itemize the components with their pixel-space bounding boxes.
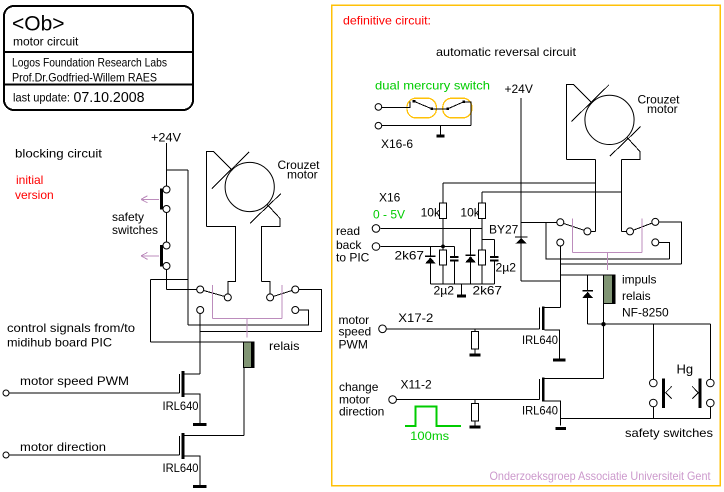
- svg-text:0 - 5V: 0 - 5V: [373, 208, 405, 222]
- svg-text:100ms: 100ms: [410, 429, 449, 443]
- svg-text:impuls: impuls: [622, 273, 657, 287]
- svg-text:IRL640: IRL640: [522, 333, 558, 347]
- svg-text:IRL640: IRL640: [163, 461, 199, 475]
- svg-text:last update:: last update:: [13, 91, 70, 105]
- svg-text:X17-2: X17-2: [398, 311, 433, 325]
- svg-text:Logos Foundation Research Labs: Logos Foundation Research Labs: [12, 56, 167, 70]
- svg-text:X16: X16: [379, 191, 401, 205]
- svg-text:safety: safety: [112, 210, 144, 224]
- svg-text:Hg: Hg: [677, 362, 694, 377]
- svg-text:version: version: [15, 188, 54, 202]
- svg-text:dual mercury switch: dual mercury switch: [375, 79, 490, 93]
- svg-text:motor speed PWM: motor speed PWM: [20, 374, 129, 388]
- svg-text:10k: 10k: [460, 206, 480, 220]
- svg-text:motor: motor: [647, 102, 678, 116]
- svg-text:blocking circuit: blocking circuit: [15, 147, 103, 161]
- svg-text:direction: direction: [339, 405, 384, 419]
- svg-text:<Ob>: <Ob>: [12, 13, 65, 36]
- svg-text:IRL640: IRL640: [163, 399, 199, 413]
- svg-text:definitive circuit:: definitive circuit:: [343, 14, 431, 28]
- svg-text:07.10.2008: 07.10.2008: [74, 90, 145, 106]
- svg-text:+24V: +24V: [505, 82, 533, 96]
- svg-text:BY27: BY27: [489, 223, 519, 237]
- svg-text:IRL640: IRL640: [522, 404, 558, 418]
- svg-text:2k67: 2k67: [473, 284, 503, 298]
- svg-text:to PIC: to PIC: [336, 251, 370, 265]
- svg-text:2µ2: 2µ2: [434, 284, 455, 298]
- svg-text:motor: motor: [287, 168, 318, 182]
- svg-text:10k: 10k: [421, 206, 441, 220]
- svg-text:X16-6: X16-6: [381, 137, 413, 151]
- svg-text:2k67: 2k67: [395, 249, 425, 263]
- svg-text:Prof.Dr.Godfried-Willem RAES: Prof.Dr.Godfried-Willem RAES: [12, 71, 157, 85]
- svg-text:safety switches: safety switches: [625, 426, 713, 440]
- svg-text:NF-8250: NF-8250: [622, 306, 669, 320]
- svg-text:motor circuit: motor circuit: [13, 35, 79, 49]
- svg-text:relais: relais: [269, 339, 300, 353]
- svg-text:+24V: +24V: [151, 131, 181, 145]
- svg-text:read: read: [336, 224, 360, 238]
- svg-text:relais: relais: [622, 289, 651, 303]
- svg-text:X11-2: X11-2: [401, 378, 432, 392]
- svg-text:motor direction: motor direction: [20, 440, 106, 454]
- svg-text:automatic reversal circuit: automatic reversal circuit: [436, 45, 577, 59]
- svg-text:control signals from/to: control signals from/to: [7, 321, 135, 335]
- svg-text:2µ2: 2µ2: [496, 261, 517, 275]
- svg-text:PWM: PWM: [339, 338, 368, 352]
- svg-text:initial: initial: [16, 173, 43, 187]
- svg-text:midihub board PIC: midihub board PIC: [7, 336, 112, 350]
- svg-text:switches: switches: [112, 223, 158, 237]
- svg-text:speed: speed: [339, 325, 372, 339]
- svg-text:Onderzoeksgroep Associatie Uni: Onderzoeksgroep Associatie Universiteit …: [490, 469, 712, 483]
